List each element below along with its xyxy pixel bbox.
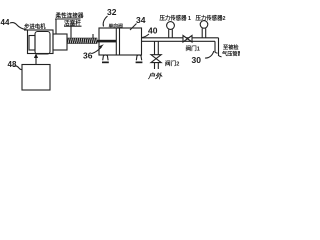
label 气压管路 bbox=[221, 50, 244, 58]
mounting foot right bbox=[136, 55, 141, 60]
leader from 48 bbox=[14, 66, 23, 70]
motor body barrel bbox=[35, 32, 50, 55]
main pipe bbox=[142, 37, 219, 39]
label 阀门1 bbox=[186, 45, 200, 53]
svg-text:气压管路: 气压管路 bbox=[221, 50, 240, 58]
label 阀门2 bbox=[165, 60, 179, 68]
outlet downpipe bbox=[218, 38, 220, 56]
label 户外 bbox=[147, 72, 163, 81]
svg-text:柔性连接器: 柔性连接器 bbox=[56, 12, 84, 20]
svg-text:48: 48 bbox=[8, 60, 17, 69]
leader from 30 bbox=[205, 51, 214, 58]
link motor to driver box bbox=[35, 54, 37, 65]
label 活塞杆 bbox=[64, 19, 81, 27]
label 30 bbox=[192, 55, 202, 65]
piston rod bbox=[97, 40, 116, 43]
pressure sensor 1 label bbox=[160, 14, 191, 22]
cylinder body bbox=[99, 28, 142, 55]
valve V2 bbox=[151, 55, 161, 63]
svg-text:阀门2: 阀门2 bbox=[165, 60, 179, 68]
svg-text:36: 36 bbox=[83, 51, 93, 61]
arrow from 36 to piston seal bbox=[92, 47, 102, 54]
flexible coupler box bbox=[53, 34, 67, 50]
tick leader of 34 bbox=[130, 24, 137, 31]
label 44 bbox=[1, 18, 10, 27]
leader from 44 bbox=[10, 23, 27, 30]
pressure sensor 2 bbox=[200, 21, 208, 29]
svg-text:34: 34 bbox=[136, 15, 146, 25]
svg-text:户外: 户外 bbox=[147, 72, 163, 81]
label 柔性连接器 bbox=[56, 12, 84, 20]
lead screw (threaded rod) bbox=[67, 38, 97, 44]
svg-text:32: 32 bbox=[107, 7, 117, 17]
leader down to screw rod bbox=[70, 26, 72, 38]
driver box bbox=[22, 65, 50, 91]
label 32 bbox=[107, 7, 117, 17]
valve V2 outlet stem bbox=[154, 63, 156, 69]
svg-text:至被检: 至被检 bbox=[223, 43, 239, 51]
svg-text:压力传感器2: 压力传感器2 bbox=[196, 14, 226, 22]
piston plate bbox=[115, 28, 117, 55]
leader from 40 bbox=[142, 34, 150, 38]
leader from 32 bbox=[103, 16, 107, 27]
pressure sensor 2 label bbox=[196, 14, 226, 22]
valve V1 on pipe bbox=[183, 36, 192, 43]
underline of 活塞杆 bbox=[64, 25, 82, 27]
underline of 柔性连接器 bbox=[55, 18, 81, 20]
svg-text:压力传感器 1: 压力传感器 1 bbox=[160, 14, 191, 22]
svg-text:阀门1: 阀门1 bbox=[186, 45, 200, 53]
pressure sensor 1 bbox=[167, 22, 175, 30]
leader down to coupler bbox=[55, 19, 57, 34]
label 单向阀 bbox=[109, 23, 124, 30]
tick on rod bbox=[92, 34, 94, 38]
svg-text:30: 30 bbox=[192, 55, 202, 65]
motor left end cap bbox=[29, 36, 35, 51]
svg-text:40: 40 bbox=[148, 26, 158, 36]
label 步进电机 bbox=[24, 23, 46, 31]
label 至被检 bbox=[223, 43, 239, 51]
stepper motor outer bracket bbox=[28, 30, 54, 54]
label 34 bbox=[136, 15, 146, 25]
mounting foot left bbox=[103, 55, 108, 60]
underline of 步进电机 bbox=[24, 29, 28, 31]
svg-text:44: 44 bbox=[1, 18, 10, 27]
label 48 bbox=[8, 60, 17, 69]
label 36 bbox=[83, 51, 93, 61]
label 40 bbox=[148, 26, 158, 36]
branch to valve V2 bbox=[154, 41, 156, 54]
